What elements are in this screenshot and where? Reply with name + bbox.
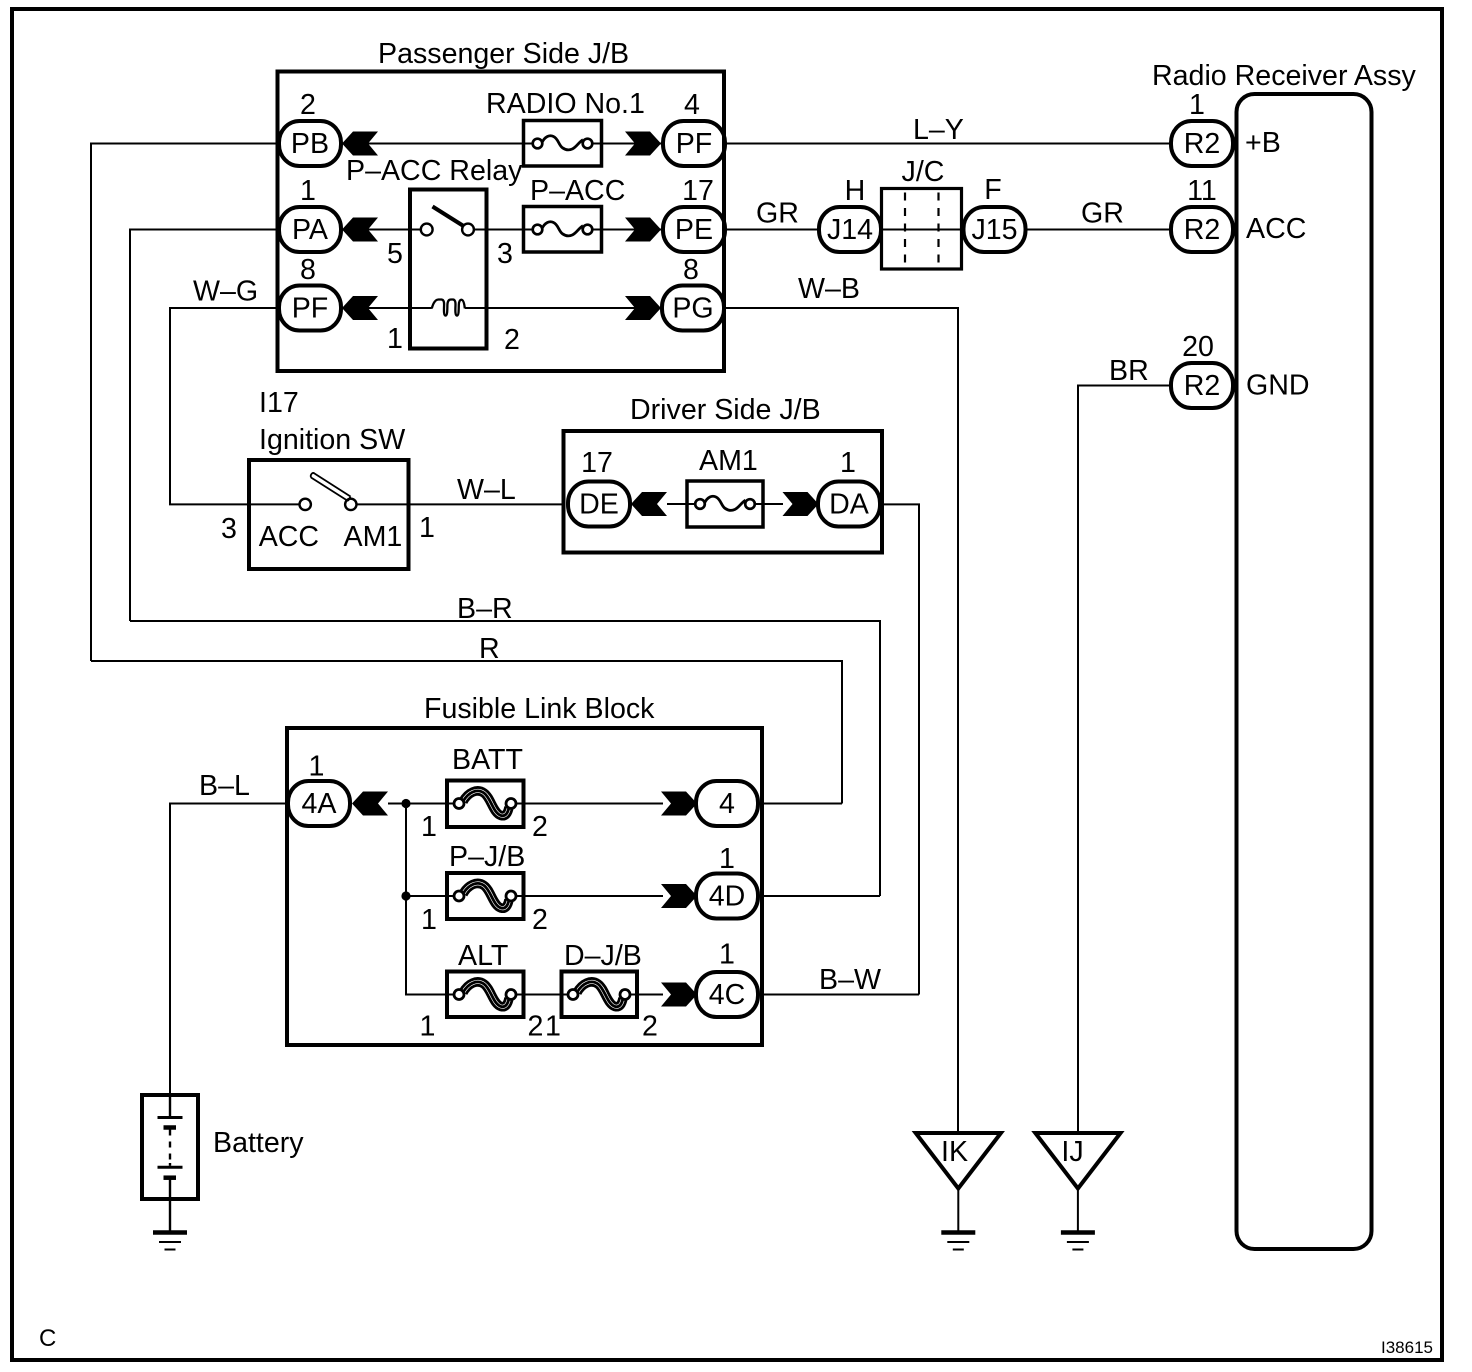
wire L-Y (PF to R2 pin1) xyxy=(725,143,1170,145)
arrow at PA xyxy=(342,218,378,242)
svg-text:J14: J14 xyxy=(827,214,873,246)
svg-text:GR: GR xyxy=(756,198,799,230)
svg-text:PE: PE xyxy=(675,214,713,246)
svg-text:ACC: ACC xyxy=(1246,213,1306,245)
connector R2 pin1 xyxy=(1171,121,1233,166)
wire B-W (4C to DA riser) xyxy=(758,994,919,996)
svg-text:1: 1 xyxy=(387,323,403,355)
svg-text:1: 1 xyxy=(1189,89,1205,121)
svg-text:R2: R2 xyxy=(1184,128,1221,160)
svg-text:B–W: B–W xyxy=(819,964,881,996)
svg-text:1: 1 xyxy=(309,751,325,783)
svg-text:J15: J15 xyxy=(971,214,1017,246)
wire PF left W-G (down to ignition switch pin 3) xyxy=(170,308,279,504)
svg-text:GND: GND xyxy=(1246,370,1310,402)
svg-text:P–ACC Relay: P–ACC Relay xyxy=(346,155,523,187)
svg-text:P–J/B: P–J/B xyxy=(449,841,525,873)
Passenger Side J/B box xyxy=(278,72,725,372)
connector DE xyxy=(568,482,630,527)
svg-text:B–R: B–R xyxy=(457,593,513,625)
wire B-R (to 4D branch) xyxy=(130,621,880,896)
connector J15 xyxy=(964,207,1026,252)
battery ground xyxy=(153,1233,187,1250)
wire DA to 4C B-W riser xyxy=(880,504,919,994)
svg-text:ALT: ALT xyxy=(458,940,508,972)
wire ALT to D-J/B fuse xyxy=(523,994,562,996)
connector 4A xyxy=(288,781,350,826)
ignition lever xyxy=(311,473,351,501)
svg-text:P–ACC: P–ACC xyxy=(530,175,625,207)
wire W-L (ignition AM1 to driver side J/B) xyxy=(408,503,564,505)
svg-text:8: 8 xyxy=(683,254,699,286)
wire BATT fuse to 4 xyxy=(523,803,663,805)
svg-text:1: 1 xyxy=(545,1011,561,1043)
svg-text:20: 20 xyxy=(1182,331,1214,363)
arrow at DE xyxy=(631,492,667,516)
svg-text:Fusible Link Block: Fusible Link Block xyxy=(424,693,655,725)
svg-text:2: 2 xyxy=(532,811,548,843)
relay switch lever xyxy=(433,207,464,227)
wire row2 fuse to PE xyxy=(601,229,663,231)
svg-text:PB: PB xyxy=(291,128,329,160)
wire W-B (PG down to IK ground) xyxy=(724,308,958,1133)
svg-text:Radio Receiver Assy: Radio Receiver Assy xyxy=(1152,60,1417,92)
connector J14 xyxy=(819,207,881,252)
svg-text:4C: 4C xyxy=(709,979,746,1011)
fusible link P-J/B xyxy=(447,873,524,919)
connector PA xyxy=(279,207,341,252)
svg-text:Passenger Side J/B: Passenger Side J/B xyxy=(378,38,629,70)
svg-text:2: 2 xyxy=(642,1011,658,1043)
svg-text:4D: 4D xyxy=(709,881,746,913)
fuse AM1 xyxy=(687,481,763,527)
arrow at PF left xyxy=(342,296,378,320)
svg-text:17: 17 xyxy=(682,175,714,207)
wire arrow gaps driver box xyxy=(667,503,687,505)
svg-text:I38615: I38615 xyxy=(1381,1338,1433,1357)
svg-text:W–G: W–G xyxy=(193,276,258,308)
fuse RADIO No.1 xyxy=(524,121,602,167)
wire R (to 4 branch) xyxy=(91,661,842,804)
junction dot A xyxy=(401,799,410,808)
wire 4D to B-R riser xyxy=(758,895,880,897)
svg-text:H: H xyxy=(845,175,866,207)
svg-text:J/C: J/C xyxy=(902,156,945,188)
svg-text:R: R xyxy=(479,633,500,665)
svg-text:+B: +B xyxy=(1245,127,1281,159)
junction connector J/C xyxy=(882,189,962,270)
svg-text:BATT: BATT xyxy=(452,744,523,776)
svg-text:1: 1 xyxy=(719,843,735,875)
svg-text:5: 5 xyxy=(387,238,403,270)
svg-text:ACC: ACC xyxy=(259,521,319,553)
connector PF left xyxy=(279,286,341,331)
connector PG xyxy=(662,286,724,331)
svg-text:AM1: AM1 xyxy=(699,445,758,477)
ground IK xyxy=(916,1133,1001,1189)
svg-text:Ignition SW: Ignition SW xyxy=(259,424,405,456)
ground IJ xyxy=(1035,1133,1120,1189)
svg-text:IJ: IJ xyxy=(1061,1136,1083,1168)
wire row1 PB to RADIO fuse xyxy=(341,143,524,145)
svg-text:PG: PG xyxy=(672,293,713,325)
svg-text:GR: GR xyxy=(1081,198,1124,230)
svg-text:2: 2 xyxy=(532,904,548,936)
wire GR (PE to J14) xyxy=(725,229,820,231)
svg-text:Driver Side J/B: Driver Side J/B xyxy=(630,394,821,426)
fusible link BATT xyxy=(447,781,524,828)
P-ACC relay U1 xyxy=(410,190,487,349)
connector PF right xyxy=(663,121,725,166)
svg-text:B–L: B–L xyxy=(199,770,250,802)
relay coil xyxy=(410,307,432,309)
svg-text:8: 8 xyxy=(300,254,316,286)
battery internals xyxy=(169,1095,171,1118)
wire row1 fuse to PF xyxy=(601,143,663,145)
arrow at 4A xyxy=(352,792,388,816)
svg-text:17: 17 xyxy=(581,447,613,479)
wire B-L (4A to battery) xyxy=(170,804,288,1097)
svg-text:AM1: AM1 xyxy=(344,521,403,553)
battery xyxy=(142,1095,198,1199)
connector DA xyxy=(818,482,880,527)
svg-text:3: 3 xyxy=(497,238,513,270)
svg-text:4: 4 xyxy=(719,788,735,820)
arrow to PG xyxy=(625,296,661,320)
Fusible Link Block box xyxy=(287,728,762,1045)
wire GR (J15 to R2 pin11) xyxy=(1026,229,1170,231)
svg-text:2: 2 xyxy=(300,89,316,121)
svg-text:1: 1 xyxy=(300,175,316,207)
svg-text:I17: I17 xyxy=(259,387,299,419)
arrow to 4D xyxy=(661,884,697,908)
svg-text:1: 1 xyxy=(419,512,435,544)
svg-text:2: 2 xyxy=(528,1011,544,1043)
wire 4A junction branch xyxy=(388,804,447,995)
svg-text:1: 1 xyxy=(421,904,437,936)
svg-text:4A: 4A xyxy=(302,788,338,820)
junction dot B xyxy=(401,891,410,900)
wire 4 to R riser xyxy=(758,803,842,805)
connector PB xyxy=(279,121,341,166)
connector R2 pin20 xyxy=(1171,363,1233,408)
arrow to 4C xyxy=(661,983,697,1007)
Radio Receiver Assy box xyxy=(1237,94,1372,1249)
arrow to DA xyxy=(783,492,819,516)
connector 4D xyxy=(696,874,758,919)
svg-text:W–B: W–B xyxy=(798,273,860,305)
svg-text:11: 11 xyxy=(1187,175,1217,207)
wire row3 PF to relay coil xyxy=(341,307,410,309)
svg-text:D–J/B: D–J/B xyxy=(564,940,642,972)
svg-text:PA: PA xyxy=(292,214,329,246)
wire BR (R2 pin20 to IJ ground) xyxy=(1078,386,1170,1134)
svg-text:BR: BR xyxy=(1109,355,1149,387)
wire row2 PA to relay xyxy=(341,229,410,231)
svg-text:3: 3 xyxy=(221,513,237,545)
svg-text:L–Y: L–Y xyxy=(913,114,964,146)
fusible link ALT xyxy=(447,972,524,1018)
svg-text:1: 1 xyxy=(840,447,856,479)
svg-text:PF: PF xyxy=(292,293,329,325)
fuse P-ACC xyxy=(524,207,602,253)
svg-text:F: F xyxy=(984,174,1001,206)
fusible link D-J/B xyxy=(562,972,638,1018)
wire PB left (L from PB down to R wire) xyxy=(91,144,279,662)
relay switch contacts xyxy=(410,229,421,231)
connector PE xyxy=(663,207,725,252)
ignition contacts xyxy=(249,503,300,505)
svg-text:Battery: Battery xyxy=(213,1127,304,1159)
connector 4C xyxy=(696,972,758,1017)
svg-text:4: 4 xyxy=(684,89,700,121)
svg-text:C: C xyxy=(39,1325,56,1352)
svg-text:1: 1 xyxy=(719,939,735,971)
wire through J/C xyxy=(881,229,963,231)
arrow at PB xyxy=(342,132,378,156)
svg-text:IK: IK xyxy=(941,1136,968,1168)
svg-text:R2: R2 xyxy=(1184,370,1221,402)
svg-text:2: 2 xyxy=(504,324,520,356)
svg-text:DE: DE xyxy=(579,489,619,521)
arrow to PE xyxy=(625,218,661,242)
svg-text:R2: R2 xyxy=(1184,214,1221,246)
svg-text:1: 1 xyxy=(420,1011,436,1043)
wire D-J/B fuse to 4C xyxy=(636,994,663,996)
svg-text:DA: DA xyxy=(829,489,870,521)
Driver Side J/B box xyxy=(564,431,883,553)
connector 4 xyxy=(696,781,758,826)
wire row2 relay to P-ACC fuse xyxy=(486,229,524,231)
wire P-J/B fuse to 4D xyxy=(523,895,663,897)
svg-text:W–L: W–L xyxy=(457,474,516,506)
wire PA left (down to B-R wire) xyxy=(130,230,279,622)
arrow to 4 xyxy=(661,792,697,816)
wire row3 relay to PG xyxy=(486,307,663,309)
ignition switch I17 xyxy=(249,460,409,569)
svg-text:RADIO No.1: RADIO No.1 xyxy=(486,88,645,120)
connector R2 pin11 xyxy=(1171,207,1233,252)
svg-text:1: 1 xyxy=(421,811,437,843)
arrow to PF right xyxy=(625,132,661,156)
svg-text:PF: PF xyxy=(676,128,713,160)
